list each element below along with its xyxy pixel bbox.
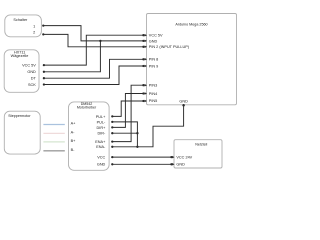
wire: DM542 PUL- -> GND bus xyxy=(112,122,137,147)
wire: stepper coil A+ (blue) xyxy=(43,124,64,126)
HX711 Waegezelle (load cell) U2 xyxy=(4,50,39,93)
Schalter (switch) S1 xyxy=(5,15,42,37)
wire: HX711 VCC 5V -> Arduino VCC 5V xyxy=(44,35,143,65)
svg-text:VCC 5V: VCC 5V xyxy=(22,63,36,67)
svg-text:Arduino Mega 2560: Arduino Mega 2560 xyxy=(175,22,207,26)
wire: Schalter 1 -> Arduino GND xyxy=(43,26,143,41)
svg-text:GND: GND xyxy=(179,99,188,103)
svg-text:PIN 9: PIN 9 xyxy=(149,64,159,68)
svg-text:Motortreiber: Motortreiber xyxy=(77,106,97,110)
wire: Schalter 2 -> Arduino PIN 2 xyxy=(43,34,143,46)
svg-text:PIN 2 (INPUT PULLUP): PIN 2 (INPUT PULLUP) xyxy=(149,45,190,49)
svg-text:GND: GND xyxy=(176,163,185,167)
junction: DIR- on GND bus xyxy=(136,132,138,134)
wire: stepper coil B+ (green) xyxy=(43,141,64,143)
svg-text:DT: DT xyxy=(31,77,37,81)
svg-text:PUL+: PUL+ xyxy=(96,115,106,119)
wire: HX711 SCK -> Arduino PIN 9 xyxy=(44,66,143,85)
wire: stepper coil A- (red) xyxy=(43,132,64,134)
svg-text:DIR-: DIR- xyxy=(97,132,106,136)
svg-text:GND: GND xyxy=(27,70,36,74)
svg-text:ENA+: ENA+ xyxy=(95,140,106,144)
Steppermotor M1 xyxy=(4,111,40,154)
svg-text:GND: GND xyxy=(149,39,158,43)
DM542 Motortreiber (stepper driver) U3 xyxy=(69,102,110,170)
svg-text:2: 2 xyxy=(33,31,35,35)
node: Arduino bottom GND pin xyxy=(182,104,185,107)
svg-text:VCC: VCC xyxy=(97,156,105,160)
wire: DM542 PUL+ -> Arduino PIN5 xyxy=(112,101,143,116)
wire: HX711 GND -> junction on GND net xyxy=(44,41,101,72)
wire: DM542 DIR+ -> Arduino PIN4 xyxy=(112,94,143,128)
svg-text:SCK: SCK xyxy=(28,83,36,87)
wire: HX711 DT -> Arduino PIN 8 xyxy=(44,59,143,78)
svg-text:PIN 8: PIN 8 xyxy=(149,58,159,62)
svg-text:PIN4: PIN4 xyxy=(149,92,157,96)
junction: GND net xyxy=(99,40,101,42)
svg-text:B+: B+ xyxy=(71,139,77,143)
wire: DM542 VCC -> Netzteil VCC 24V xyxy=(112,156,171,158)
junction: ENA- / GND bus xyxy=(136,146,138,148)
svg-text:VCC 24V: VCC 24V xyxy=(176,155,192,159)
wire: DM542 GND -> Netzteil GND xyxy=(112,163,171,165)
wire: DM542 ENA- -> Arduino GND (bottom) xyxy=(112,105,183,147)
svg-text:A+: A+ xyxy=(71,122,77,126)
svg-text:GND: GND xyxy=(97,163,106,167)
svg-text:Wägezelle: Wägezelle xyxy=(11,54,29,58)
svg-text:Schalter: Schalter xyxy=(13,18,28,22)
svg-text:1: 1 xyxy=(33,25,35,29)
svg-text:Steppermotor: Steppermotor xyxy=(8,114,31,118)
wire: stepper coil B- (gray) xyxy=(43,150,64,152)
Arduino Mega 2560 U1 xyxy=(147,14,237,105)
wire: DM542 DIR- -> GND bus xyxy=(112,132,137,134)
svg-text:ENA-: ENA- xyxy=(96,145,106,149)
svg-text:PIN5: PIN5 xyxy=(149,99,157,103)
svg-text:PIN3: PIN3 xyxy=(149,84,157,88)
wire: DM542 ENA+ -> Arduino PIN3 xyxy=(112,85,143,141)
svg-text:VCC 5V: VCC 5V xyxy=(149,34,163,38)
svg-text:DIR+: DIR+ xyxy=(97,126,107,130)
Netzteil (power supply) PS1 xyxy=(174,140,222,168)
svg-text:Netzteil: Netzteil xyxy=(195,142,207,146)
svg-text:PUL-: PUL- xyxy=(97,120,106,124)
